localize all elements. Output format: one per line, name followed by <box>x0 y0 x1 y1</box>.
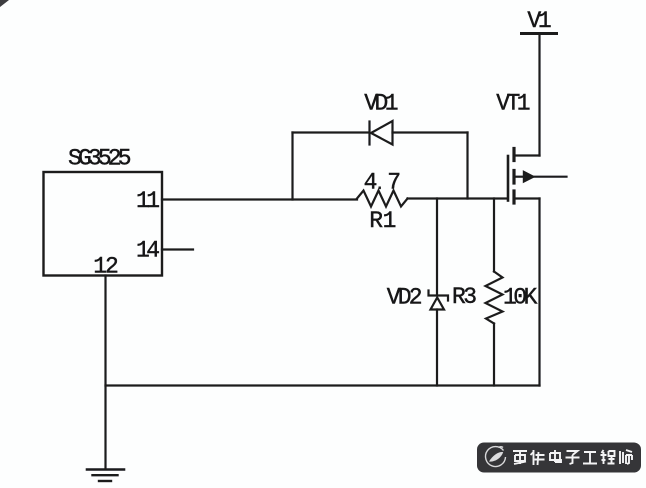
wire VD1 top right <box>393 131 468 133</box>
svg-text:VT1: VT1 <box>496 91 530 117</box>
svg-text:VD1: VD1 <box>364 91 398 117</box>
svg-text:10K: 10K <box>503 285 538 311</box>
svg-text:14: 14 <box>136 238 159 264</box>
transistor VT1 MOSFET <box>508 149 567 204</box>
硬 <box>513 451 527 464</box>
电 <box>550 450 561 462</box>
gate plate <box>507 156 510 201</box>
件 <box>531 450 545 465</box>
diode VD1 <box>370 121 393 145</box>
svg-text:SG3525: SG3525 <box>68 146 131 172</box>
logo <box>486 447 506 467</box>
svg-text:VD2: VD2 <box>387 285 422 311</box>
wire R1 to gate <box>408 197 508 199</box>
wire VD2 branch lower <box>436 310 438 386</box>
wire VD1 left leg <box>291 133 293 200</box>
程 <box>601 450 615 464</box>
svg-text:7: 7 <box>387 170 401 196</box>
wire source down <box>538 199 540 386</box>
channel middle stub <box>512 171 515 184</box>
子 <box>566 451 580 464</box>
svg-text:11: 11 <box>136 188 159 214</box>
工 <box>583 452 597 464</box>
corner mark <box>0 0 9 7</box>
wire VD2 branch upper <box>436 199 438 296</box>
power rail V1 bar <box>522 32 557 35</box>
resistor R1 <box>357 191 408 207</box>
wire 10K branch lower <box>493 324 495 386</box>
wire 10K branch upper <box>493 199 495 272</box>
watermark text 硬件电子工程师 <box>513 450 632 465</box>
svg-text:R3: R3 <box>452 284 476 310</box>
watermark badge <box>477 443 641 473</box>
svg-text:R1: R1 <box>369 208 396 234</box>
wire pin12 down <box>104 276 106 470</box>
resistor R3 value 10K <box>486 272 503 324</box>
ground <box>87 470 124 482</box>
drain lead <box>514 154 540 156</box>
wire VD1 right leg <box>466 133 468 199</box>
svg-text:V1: V1 <box>527 8 551 34</box>
body lead with arrow <box>514 176 523 178</box>
channel top stub <box>512 149 515 161</box>
channel bottom stub <box>512 191 515 203</box>
wire pin11 to R1 <box>162 198 357 200</box>
source lead <box>514 197 540 199</box>
wire bottom rail <box>106 384 540 386</box>
svg-text:4: 4 <box>364 170 378 196</box>
pin 14 stub wire <box>162 248 193 250</box>
wire VD1 top left <box>293 131 369 133</box>
师 <box>620 450 632 464</box>
IC U1 SG3525 <box>44 172 163 276</box>
wire drain to V1 <box>538 34 540 156</box>
zener diode VD2 <box>429 291 449 310</box>
